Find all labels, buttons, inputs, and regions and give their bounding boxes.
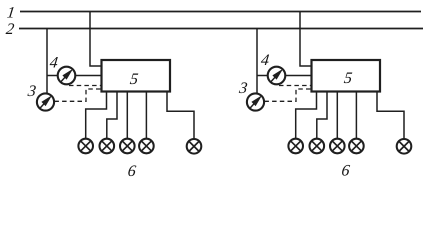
svg-text:6: 6 — [341, 162, 351, 179]
meter P3A (3) — [37, 93, 54, 110]
svg-text:1: 1 — [6, 4, 16, 21]
dashed link meter P3B to box — [264, 89, 311, 101]
wire L1 to box UA — [90, 12, 102, 67]
meter P4A (4) — [58, 67, 76, 85]
wire box pin5 to lamp H5B — [377, 92, 404, 140]
wire box pin3 to lamp H3A — [126, 92, 128, 140]
wire box pin5 to lamp H5A — [167, 92, 194, 140]
lamp H5A — [187, 139, 202, 154]
control box UB (5) — [312, 60, 381, 92]
lamp H5B — [397, 139, 412, 154]
wire box pin1 to lamp H1B — [296, 92, 317, 140]
wire box pin2 to lamp H2B — [317, 92, 327, 140]
meter P4B (4) — [268, 67, 286, 85]
wire box pin1 to lamp H1A — [86, 92, 107, 140]
wire box pin2 to lamp H2A — [107, 92, 117, 140]
wire box pin4 to lamp H4B — [355, 92, 357, 140]
lamp H3B — [330, 139, 345, 154]
wire branch to meter P4A — [47, 75, 58, 77]
wire meter P4B to box — [285, 75, 312, 77]
dashed link meter P4B to box — [279, 85, 311, 87]
control box UA (5) — [102, 60, 171, 92]
svg-text:6: 6 — [127, 163, 137, 180]
lamp H1B — [288, 139, 303, 154]
lamp H2A — [100, 139, 115, 154]
bus line 2 — [19, 28, 423, 30]
wire box pin3 to lamp H3B — [336, 92, 338, 140]
svg-text:3: 3 — [237, 80, 248, 97]
lamp H4B — [349, 139, 364, 154]
bus line 1 — [20, 11, 421, 13]
lamp H1A — [78, 139, 93, 154]
wire meter P4A to box — [75, 75, 102, 77]
wire L2 to meter P3B — [256, 29, 258, 94]
svg-text:3: 3 — [26, 83, 37, 100]
svg-text:4: 4 — [260, 52, 270, 69]
wire L2 to meter P3A — [46, 29, 48, 94]
wire box pin4 to lamp H4A — [145, 92, 147, 140]
lamp H2B — [310, 139, 325, 154]
lamp H3A — [120, 139, 135, 154]
dashed link meter P4A to box — [69, 85, 101, 87]
meter P3B (3) — [247, 93, 264, 110]
lamp H4A — [139, 139, 154, 154]
wire branch to meter P4B — [257, 75, 268, 77]
dashed link meter P3A to box — [54, 89, 101, 101]
svg-text:4: 4 — [49, 54, 59, 71]
wire L1 to box UB — [300, 12, 312, 67]
svg-text:2: 2 — [5, 21, 15, 38]
